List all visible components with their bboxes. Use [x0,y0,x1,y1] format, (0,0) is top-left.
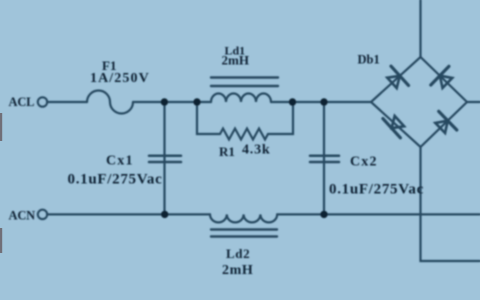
capacitor Cx2 [323,102,325,214]
svg-text:ACN: ACN [9,209,36,223]
inductor Ld1 core bars [211,76,278,78]
wire bridge bottom DC- [421,147,480,261]
diode D3 bottom-left [383,112,408,138]
wire bridge top to top edge [419,0,421,57]
diode D1 top-left [383,66,408,92]
svg-text:Ld2: Ld2 [226,246,250,261]
svg-text:Cx2: Cx2 [350,155,378,170]
junction node at Ld1 left [193,98,200,105]
wire Ld2 to right edge [277,213,480,215]
terminal ACL [38,97,47,106]
resistor R1 loop [197,102,293,140]
wire fuse to node B [133,101,197,103]
svg-text:4.3k: 4.3k [242,143,271,158]
junction node at Cx1 bottom [161,211,168,218]
wire bridge right to right edge [467,101,480,103]
wire node C to bridge [324,101,371,103]
diode D4 bottom-right [431,111,457,137]
wire node B to Ld1 [197,101,211,103]
left edge artifact upper [0,113,2,141]
wire ACL to fuse [47,101,87,103]
diode D2 top-right [431,66,457,92]
svg-text:Cx1: Cx1 [106,154,134,169]
inductor Ld1 coil [211,94,271,103]
svg-text:ACL: ACL [9,95,35,109]
junction node at Ld1 right [289,98,296,105]
terminal ACN [38,210,47,219]
svg-text:1A/250V: 1A/250V [90,71,150,86]
capacitor Cx1 [163,102,165,214]
svg-text:R1: R1 [219,144,235,159]
bridge Db1 diamond [371,57,467,147]
wire Ld1 to node C [271,101,324,103]
svg-text:0.1uF/275Vac: 0.1uF/275Vac [329,182,424,198]
svg-text:Db1: Db1 [358,53,380,67]
inductor Ld2 core bars [211,228,277,230]
svg-text:2mH: 2mH [222,263,253,278]
inductor Ld2 coil [210,214,277,222]
fuse F1 [87,91,133,114]
svg-text:0.1uF/275Vac: 0.1uF/275Vac [68,172,163,188]
junction node at Cx1 top [161,98,168,105]
wire ACN to Ld2 [47,213,210,215]
junction node at Cx2 bottom [320,211,327,218]
svg-text:2mH: 2mH [222,53,249,68]
left edge artifact lower [0,228,2,253]
junction node at Cx2 top [320,98,327,105]
